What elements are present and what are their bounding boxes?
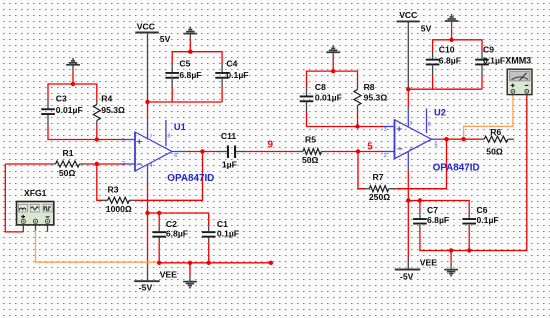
svg-text:8: 8 — [428, 122, 431, 128]
svg-text:VEE: VEE — [420, 257, 437, 267]
svg-text:95.3Ω: 95.3Ω — [101, 105, 125, 115]
svg-text:7: 7 — [149, 134, 152, 140]
svg-text:0.01µF: 0.01µF — [315, 93, 342, 103]
svg-text:U2: U2 — [434, 107, 446, 117]
svg-text:R4: R4 — [101, 94, 112, 104]
svg-text:5V: 5V — [160, 34, 171, 44]
svg-text:50Ω: 50Ω — [486, 147, 503, 157]
svg-text:C7: C7 — [427, 205, 438, 215]
svg-text:0.1µF: 0.1µF — [226, 70, 248, 80]
svg-text:U1: U1 — [174, 122, 186, 132]
svg-text:C3: C3 — [56, 94, 67, 104]
svg-text:VCC: VCC — [137, 21, 155, 31]
svg-text:0.01µF: 0.01µF — [56, 105, 83, 115]
svg-text:3: 3 — [122, 138, 125, 144]
svg-text:VEE: VEE — [160, 269, 177, 279]
svg-text:C6: C6 — [477, 205, 488, 215]
svg-text:R3: R3 — [108, 184, 119, 194]
svg-text:7: 7 — [409, 121, 412, 127]
svg-text:0.1µF: 0.1µF — [483, 56, 505, 66]
svg-text:6.8µF: 6.8µF — [439, 56, 461, 66]
svg-text:C8: C8 — [315, 82, 326, 92]
svg-text:5: 5 — [367, 142, 373, 153]
svg-text:OPA847ID: OPA847ID — [433, 163, 480, 174]
svg-text:95.3Ω: 95.3Ω — [364, 93, 388, 103]
svg-text:R6: R6 — [490, 127, 501, 137]
svg-text:9: 9 — [268, 140, 274, 151]
svg-text:6: 6 — [174, 153, 177, 159]
svg-text:1µF: 1µF — [222, 160, 237, 170]
svg-text:C5: C5 — [179, 58, 190, 68]
svg-text:6.8µF: 6.8µF — [179, 70, 201, 80]
svg-text:C10: C10 — [439, 44, 455, 54]
svg-text:5V: 5V — [421, 23, 432, 33]
svg-text:XMM3: XMM3 — [505, 56, 531, 66]
svg-text:6: 6 — [435, 142, 438, 148]
svg-text:250Ω: 250Ω — [369, 192, 390, 202]
svg-text:1000Ω: 1000Ω — [106, 204, 132, 214]
svg-text:XFG1: XFG1 — [24, 188, 47, 198]
svg-text:R1: R1 — [63, 148, 74, 158]
svg-text:4: 4 — [149, 163, 152, 169]
svg-text:R8: R8 — [364, 82, 375, 92]
svg-text:0.1µF: 0.1µF — [217, 228, 239, 238]
svg-text:2: 2 — [122, 161, 125, 167]
svg-text:-5V: -5V — [139, 282, 153, 292]
svg-text:2: 2 — [384, 153, 387, 159]
svg-text:OPA847ID: OPA847ID — [167, 173, 214, 184]
svg-text:8: 8 — [167, 134, 170, 140]
svg-text:0.1µF: 0.1µF — [477, 215, 499, 225]
svg-text:4: 4 — [409, 147, 412, 153]
svg-text:C4: C4 — [226, 58, 237, 68]
svg-text:50Ω: 50Ω — [59, 168, 76, 178]
svg-text:50Ω: 50Ω — [302, 155, 319, 165]
svg-text:R5: R5 — [305, 135, 316, 145]
svg-text:-5V: -5V — [400, 271, 414, 281]
svg-text:VCC: VCC — [399, 10, 417, 20]
svg-text:6.8µF: 6.8µF — [166, 228, 188, 238]
svg-text:C9: C9 — [483, 44, 494, 54]
svg-text:6.8µF: 6.8µF — [427, 215, 449, 225]
svg-text:R7: R7 — [373, 172, 384, 182]
svg-text:C11: C11 — [221, 131, 237, 141]
svg-text:3: 3 — [384, 127, 387, 133]
